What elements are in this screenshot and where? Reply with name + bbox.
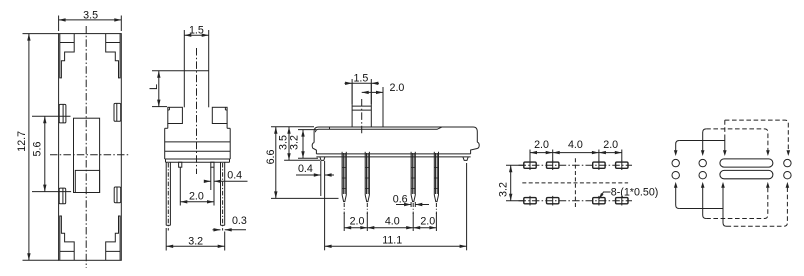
- view1 corner clip top-left: [60, 34, 74, 78]
- dimension 3.2 view3: [288, 130, 318, 159]
- view3 body outline: [312, 127, 479, 157]
- view3 actuator: [352, 83, 371, 134]
- svg-text:2.0: 2.0: [350, 216, 365, 228]
- view1 side tab upper-left: [59, 104, 66, 123]
- svg-text:0.4: 0.4: [227, 169, 242, 181]
- dimension 0.4 view3: [296, 161, 334, 250]
- view3 pin 1: [342, 152, 346, 214]
- svg-text:2.0: 2.0: [534, 139, 549, 151]
- view2 cover tab left: [168, 107, 183, 123]
- wire dashed bottom outer: [727, 182, 790, 226]
- view3 foot left: [320, 157, 325, 161]
- dimension 5.6 view1: [31, 116, 71, 191]
- terminal circle col1 top: [672, 159, 679, 166]
- view2 leg right: [221, 162, 225, 230]
- wire col2 bottom with arrow: [701, 182, 706, 219]
- view4 row centerline top: [519, 164, 633, 166]
- wire bar-left top with arrow: [723, 120, 727, 156]
- dimension chain 2.0/4.0/2.0 view4: [530, 139, 622, 161]
- svg-text:2.0: 2.0: [420, 216, 435, 228]
- wire solid top horizontal: [679, 140, 725, 142]
- view1 horizontal centerline: [50, 154, 129, 156]
- view2 leg left: [166, 162, 170, 230]
- view1 side tab lower-left: [59, 188, 65, 204]
- view4 row centerline bottom: [519, 200, 633, 202]
- view2 body: [165, 124, 231, 163]
- view2 rear pin right: [211, 162, 214, 205]
- svg-text:0.4: 0.4: [298, 163, 313, 175]
- view3 foot right: [463, 157, 468, 161]
- terminal circle col1 bottom: [672, 172, 679, 179]
- view1 corner clip top-right: [106, 34, 120, 78]
- svg-text:2.0: 2.0: [390, 82, 405, 94]
- svg-text:5.6: 5.6: [31, 142, 43, 157]
- wire bar-left bottom with arrow: [721, 182, 726, 226]
- dimension L view2: [148, 71, 184, 107]
- terminal circle right top: [784, 159, 791, 166]
- view4 pad 4: [616, 160, 628, 170]
- view2 cover tab right: [212, 107, 227, 123]
- svg-text:4.0: 4.0: [385, 216, 400, 228]
- view1 top-view body outline: [59, 34, 122, 261]
- svg-text:2.0: 2.0: [603, 139, 618, 151]
- common contact bar top: [720, 159, 773, 167]
- view1 side tab lower-right: [114, 187, 121, 203]
- terminal circle col2 bottom: [699, 172, 706, 179]
- view3 pin 4: [434, 152, 438, 214]
- svg-text:1.5: 1.5: [189, 25, 204, 37]
- dimension 3.2 view4: [498, 165, 524, 201]
- dimension 0.4 view2: [204, 169, 248, 183]
- view2 rear pin left: [179, 162, 182, 167]
- wire dashed bottom inner: [706, 182, 769, 219]
- svg-text:1.5: 1.5: [353, 72, 368, 84]
- view4 center dashed line vertical: [574, 158, 576, 207]
- wire dashed top outer: [725, 120, 790, 156]
- svg-text:0.6: 0.6: [393, 193, 408, 205]
- svg-text:3.5: 3.5: [83, 9, 98, 21]
- view4 pad 2: [547, 160, 559, 170]
- dimension 3.2 view2: [166, 228, 225, 251]
- view4 pad 8: [616, 196, 628, 206]
- svg-text:8-(1*0.50): 8-(1*0.50): [611, 186, 659, 198]
- view1 vertical centerline: [85, 26, 87, 268]
- dimension 12.7 view1: [16, 34, 58, 261]
- view2 vertical centerline: [196, 48, 198, 174]
- svg-text:11.1: 11.1: [382, 234, 402, 246]
- dimension 11.1 view3: [325, 163, 467, 250]
- common contact bar bottom: [720, 170, 773, 178]
- view4 pad 7: [593, 196, 605, 206]
- svg-text:2.0: 2.0: [189, 190, 204, 202]
- svg-text:0.3: 0.3: [232, 215, 247, 227]
- svg-text:3.2: 3.2: [188, 235, 203, 247]
- view4 middle dashed line: [522, 182, 628, 184]
- view3 pin 2: [365, 152, 369, 214]
- dimension 2.0 view2: [180, 167, 214, 205]
- dimension 0.6 view3: [393, 193, 429, 207]
- callout 8-(1*0.50) view4: [599, 186, 658, 199]
- dimension 6.6 view3: [265, 127, 339, 199]
- wire col1 top with arrow: [674, 141, 679, 157]
- svg-text:6.6: 6.6: [265, 150, 277, 165]
- svg-text:3.2: 3.2: [498, 182, 510, 197]
- svg-text:12.7: 12.7: [16, 131, 28, 152]
- view2 actuator: [184, 37, 208, 107]
- dimension 1.5 view2: [184, 25, 208, 37]
- dimension 3.5 view1: [59, 9, 122, 31]
- view4 pad 6: [547, 196, 559, 206]
- view4 pad 1: [524, 160, 536, 170]
- view1 slider slot: [74, 118, 100, 192]
- view1 corner clip bottom-right: [106, 216, 120, 260]
- dimension 0.3 view2: [213, 215, 247, 231]
- wire dashed top inner: [706, 129, 770, 156]
- dimension chain 2.0/4.0/2.0 view3: [344, 213, 436, 231]
- dimension 2.0 view3 (actuator offset): [362, 82, 405, 127]
- wire col2 top with arrow: [701, 129, 706, 156]
- svg-text:L: L: [148, 84, 160, 90]
- view1 side tab upper-right: [114, 103, 121, 121]
- terminal circle col2 top: [699, 159, 706, 166]
- svg-text:4.0: 4.0: [568, 139, 583, 151]
- wire col1 bottom with arrow: [674, 182, 679, 209]
- view1 slider knob: [75, 170, 99, 192]
- wire solid bottom horizontal: [679, 208, 723, 210]
- terminal circle right bottom: [784, 172, 791, 179]
- view1 corner clip bottom-left: [60, 216, 74, 260]
- svg-text:3.2: 3.2: [288, 135, 300, 150]
- dimension 3.5 view3: [278, 127, 320, 161]
- view4 pad 5: [524, 196, 536, 206]
- view3 pin 3: [411, 152, 415, 214]
- dimension 1.5 view3: [345, 72, 380, 104]
- view4 pad 3: [593, 160, 605, 170]
